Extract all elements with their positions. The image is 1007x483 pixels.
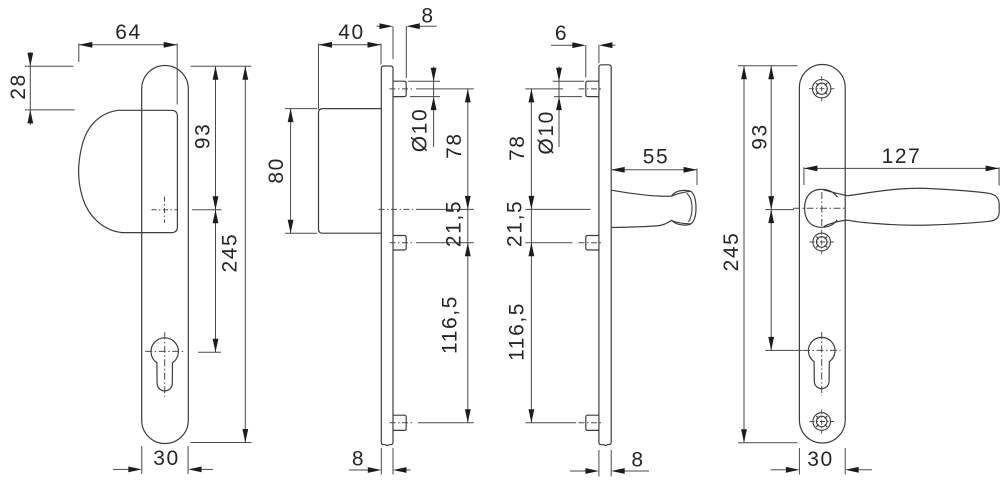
extension bottom pin centre to dims (view3)	[525, 422, 576, 424]
extension keyhole centre (view4 left)	[765, 349, 802, 351]
svg-text:8: 8	[631, 449, 644, 472]
dimension 6 (pin projection, view3)	[551, 45, 616, 77]
dimension 245 line (view1)	[244, 66, 246, 442]
bottom fixing pin (view3)	[586, 415, 599, 430]
arrows 78 / 21,5 / 116,5 (view3)	[529, 89, 535, 423]
extension line plate top (view1 right)	[191, 65, 252, 67]
svg-text:6: 6	[555, 22, 568, 45]
top fixing pin (view3)	[586, 81, 599, 96]
middle fixing pin (view2)	[393, 236, 406, 251]
dimension chain line (view3 left)	[530, 89, 532, 423]
keyhole (euro cylinder, view4)	[808, 337, 835, 388]
svg-text:28: 28	[7, 73, 30, 100]
extension pin centre to dims (view2)	[416, 88, 474, 90]
arrows 78 / 21,5 / 116,5 (view2)	[465, 89, 471, 423]
keyhole (euro cylinder) view 1	[151, 338, 178, 391]
svg-text:116,5: 116,5	[439, 295, 462, 354]
svg-text:8: 8	[352, 447, 365, 470]
middle pin centre line (view2)	[390, 242, 414, 244]
extension handle centre (view3)	[525, 208, 590, 210]
knob housing box (view2)	[319, 109, 382, 234]
backplate P1 (capsule)	[142, 66, 189, 444]
dimension 127 (lever length, view4)	[804, 167, 999, 185]
top screw centre lines	[809, 76, 834, 101]
extension line knob centre (view1 right)	[192, 209, 222, 211]
middle pin centre line (view3)	[579, 242, 603, 244]
knob K1 (D-shape)	[79, 110, 178, 232]
lever arm (view4)	[824, 188, 1000, 226]
svg-text:93: 93	[192, 123, 215, 150]
dimension Ø10 (pin diameter, view2)	[408, 67, 440, 148]
plate bar (side view, view3)	[599, 65, 611, 446]
svg-text:Ø10: Ø10	[535, 110, 558, 155]
backplate P2 (capsule, view4)	[799, 65, 845, 444]
extension plate bottom (view4 left)	[738, 442, 798, 444]
svg-text:64: 64	[115, 21, 142, 44]
dimension 64 (knob width)	[79, 44, 177, 105]
dimension 93 line (view1)	[215, 66, 217, 210]
dimension Ø10 (pin diameter, view3)	[553, 67, 584, 148]
extension mid pin centre to dims (view3)	[525, 242, 572, 244]
dimension knob-to-keyhole line (view1, unlabelled)	[215, 210, 217, 352]
dimension 8 top (pin projection, view2)	[377, 26, 437, 78]
dimension 55 (grip length, view3)	[611, 169, 697, 186]
bottom screw (view4)	[813, 413, 831, 431]
extension pin centre to dims (view3)	[525, 88, 563, 90]
handle boss (view4)	[805, 189, 838, 227]
top fixing pin (view2)	[393, 81, 406, 96]
svg-text:80: 80	[265, 157, 288, 184]
svg-text:78: 78	[443, 132, 466, 159]
boss centre lines (view4)	[793, 192, 846, 228]
dimension 28 (knob offset from top)	[25, 52, 75, 125]
top pin centre line (view3)	[579, 88, 603, 90]
extension handle centre (view4 left)	[765, 209, 794, 211]
svg-text:40: 40	[338, 21, 365, 44]
dimension 8 bottom (plate thickness, view2)	[349, 448, 411, 475]
keyhole centre lines view 1	[145, 332, 184, 397]
svg-text:116,5: 116,5	[505, 302, 528, 361]
bottom fixing pin (view2)	[393, 415, 406, 430]
svg-text:21,5: 21,5	[504, 200, 527, 247]
bottom pin centre line (view2)	[390, 422, 414, 424]
dimension 245 line (view4)	[743, 66, 745, 443]
dimension 30 (view1 bottom)	[113, 446, 213, 474]
knob centre line (view2)	[379, 208, 414, 210]
svg-text:127: 127	[882, 145, 922, 168]
svg-text:55: 55	[643, 146, 670, 169]
dimension 80 (housing height)	[285, 109, 317, 234]
knob centre mark	[152, 197, 178, 223]
keyhole centre lines (view4)	[803, 332, 841, 396]
extension mid pin centre to dims (view2)	[416, 242, 474, 244]
middle screw centre lines	[810, 230, 834, 254]
svg-text:245: 245	[219, 233, 242, 273]
svg-text:245: 245	[720, 232, 743, 272]
plate bar (side view, view2)	[381, 66, 393, 445]
extension knob centre to dims (view2)	[416, 208, 474, 210]
extension line plate bottom (view1 right)	[191, 442, 252, 444]
bottom screw centre lines	[810, 409, 834, 433]
middle fixing pin (view3)	[586, 236, 599, 251]
svg-text:93: 93	[749, 123, 772, 150]
bottom pin centre line (view3)	[579, 422, 603, 424]
dimension chain line (view2 right)	[467, 89, 469, 423]
top pin centre line (view2)	[390, 88, 414, 90]
extension line keyhole centre (view1 right)	[198, 351, 221, 353]
svg-text:30: 30	[807, 448, 834, 471]
dimension 40 (housing depth)	[319, 44, 382, 110]
dimension 8 bottom (plate thickness, view3)	[570, 450, 649, 477]
dimension 93 line (view4)	[770, 66, 772, 210]
lever handle grip (side view, view3)	[612, 190, 697, 227]
middle screw (view4)	[813, 233, 831, 251]
svg-text:78: 78	[506, 134, 529, 161]
extension bottom pin centre to dims (view2)	[418, 422, 474, 424]
lever grip crease (view3)	[671, 191, 691, 224]
dimension handle-to-keyhole line (view4, unlabelled)	[770, 210, 772, 351]
svg-text:8: 8	[421, 5, 434, 28]
svg-text:21,5: 21,5	[443, 200, 466, 247]
dimension 30 (view4 bottom)	[771, 448, 873, 475]
extension plate top (view4 left)	[738, 65, 798, 67]
svg-text:Ø10: Ø10	[409, 108, 432, 153]
top screw (view4)	[813, 80, 831, 98]
lever grip end inner line (view3)	[687, 193, 692, 222]
svg-text:30: 30	[153, 447, 180, 470]
